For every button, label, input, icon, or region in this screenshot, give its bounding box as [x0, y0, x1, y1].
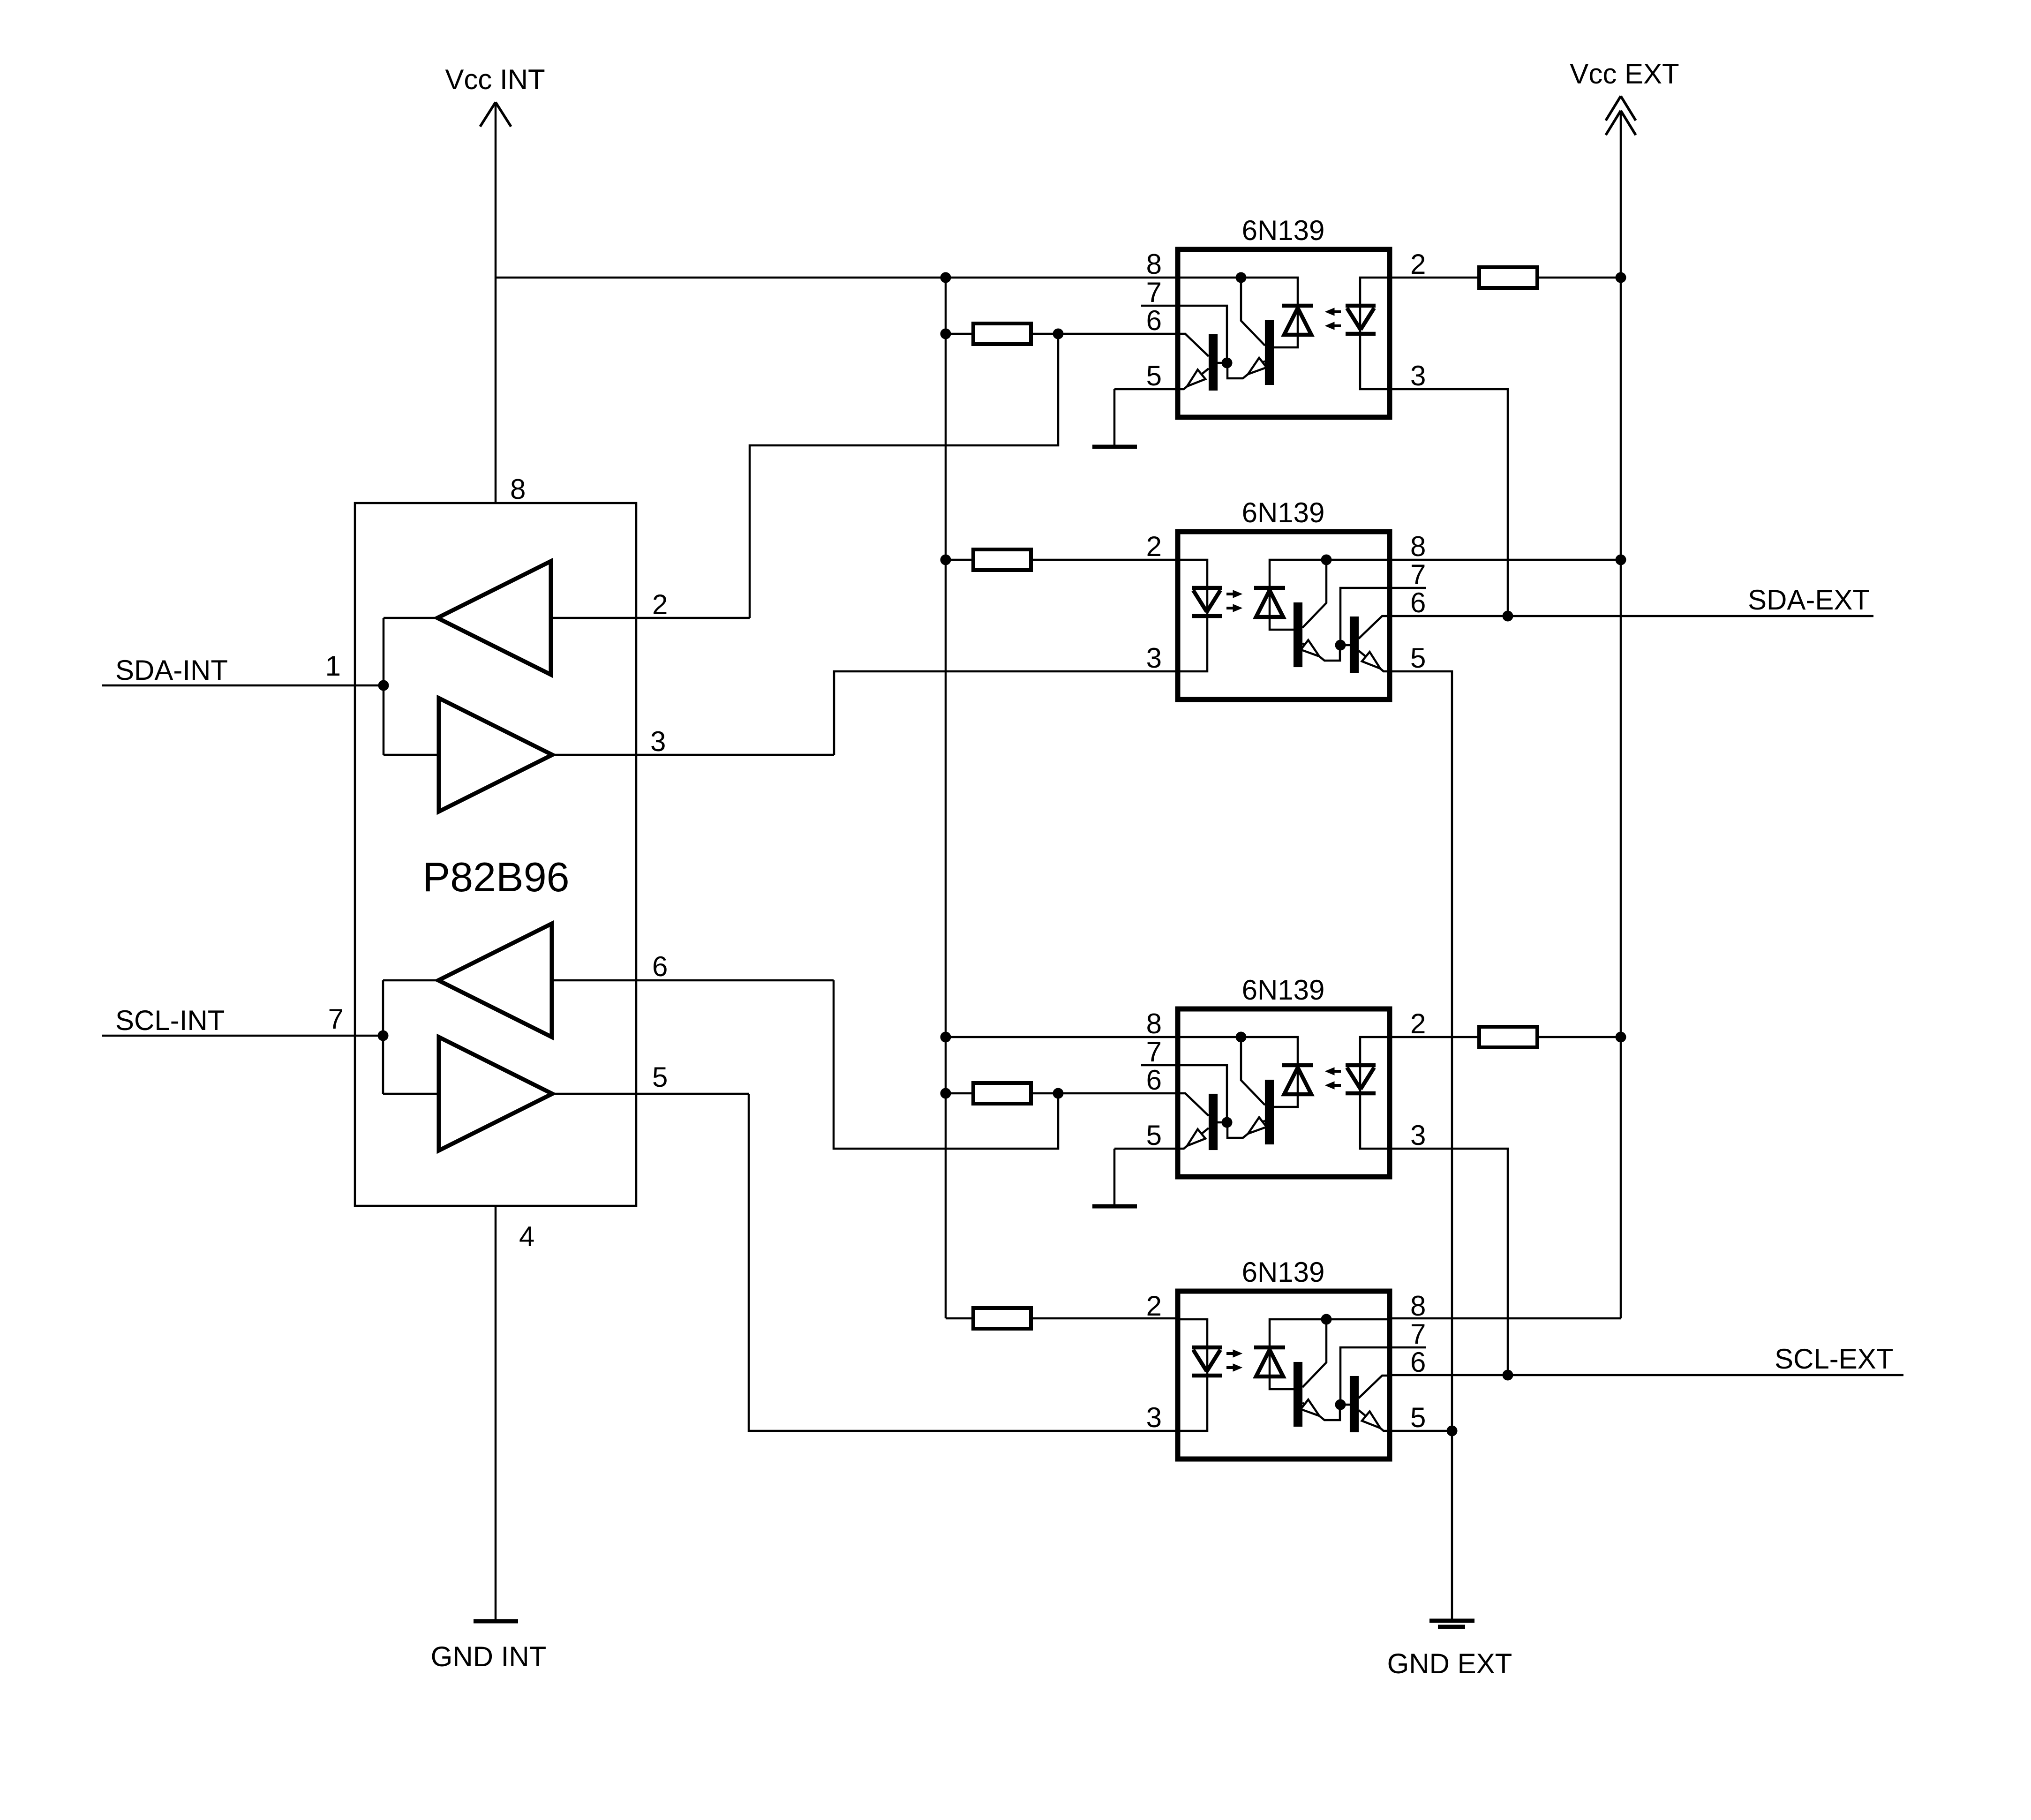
optocoupler U3 6N139: [1141, 1009, 1390, 1177]
resistor R4 (opto4 pin2 series): [946, 1317, 973, 1320]
GND EXT bars: [1429, 1619, 1474, 1623]
svg-text:6: 6: [1146, 1064, 1162, 1096]
buffer A2 (Tx SDA): [439, 698, 552, 812]
pin 2 wire: [551, 617, 750, 619]
pin 3 wire: [552, 754, 834, 756]
resistor R1 (opto1 pin6 pullup): [946, 333, 973, 335]
svg-text:6: 6: [1410, 1346, 1426, 1378]
SDA internal branch: [383, 618, 385, 755]
Vcc INT rail: [495, 102, 497, 503]
svg-text:7: 7: [1146, 277, 1162, 308]
U1 pin5 ground stub: [1114, 388, 1178, 391]
buffer A1 (Rx SDA): [437, 561, 551, 675]
U4 pin3 feed from P82B96 pin5: [749, 1094, 1178, 1431]
svg-text:6N139: 6N139: [1242, 497, 1325, 528]
P82B96 IC box: [355, 503, 636, 1206]
U4 pin8 wire to VccEXT corner: [1390, 1317, 1621, 1320]
feed P82B96 pin2 to U1 pin6 node: [750, 334, 1058, 618]
U3 pin3 wire to SCL-EXT: [1390, 1149, 1508, 1375]
svg-text:6: 6: [1146, 305, 1162, 336]
resistor R6 (opto3 pin2 to VccEXT): [1390, 1036, 1479, 1038]
svg-text:6N139: 6N139: [1242, 974, 1325, 1006]
Vcc INT arrow: [480, 102, 496, 127]
pin 6 wire: [552, 979, 834, 982]
svg-text:5: 5: [1410, 1402, 1426, 1433]
svg-text:GND EXT: GND EXT: [1387, 1648, 1512, 1679]
U1 ground bar: [1092, 445, 1137, 449]
GND EXT rail (from opto2 pin5): [1390, 671, 1452, 1619]
buffer A4 (Tx SCL): [439, 1037, 552, 1151]
U3 pin5 ground stub: [1114, 1148, 1178, 1150]
SDA-INT wire: [102, 684, 384, 687]
svg-text:6: 6: [1410, 587, 1426, 618]
svg-text:5: 5: [652, 1061, 668, 1093]
svg-text:8: 8: [510, 474, 526, 505]
U1 pin3 wire to SDA-EXT: [1390, 389, 1508, 616]
GND INT wire: [495, 1206, 497, 1619]
svg-text:3: 3: [1146, 642, 1162, 674]
svg-text:2: 2: [1146, 531, 1162, 562]
svg-text:3: 3: [1410, 360, 1426, 391]
svg-text:SDA-INT: SDA-INT: [115, 654, 228, 686]
pin 5 wire: [552, 1093, 749, 1095]
svg-text:8: 8: [1146, 1008, 1162, 1039]
svg-text:8: 8: [1410, 531, 1426, 562]
Vcc INT horizontal wire: [496, 277, 1178, 279]
svg-text:6N139: 6N139: [1242, 1256, 1325, 1288]
svg-text:2: 2: [1410, 248, 1426, 280]
Vcc EXT rail: [1620, 111, 1622, 1318]
svg-text:P82B96: P82B96: [422, 854, 569, 900]
buffer A3 (Rx SCL): [438, 924, 552, 1037]
svg-text:5: 5: [1146, 1120, 1162, 1151]
svg-text:Vcc EXT: Vcc EXT: [1570, 58, 1679, 90]
left supply rail x2017: [945, 278, 947, 1318]
feed P82B96 pin6 to U3 pin6 node: [834, 980, 1058, 1149]
GND INT bar: [474, 1619, 518, 1624]
U3 pin8 wire: [946, 1036, 1178, 1038]
svg-text:5: 5: [1146, 360, 1162, 391]
svg-text:7: 7: [1410, 1318, 1426, 1350]
resistor R2 (opto2 pin2 series): [946, 559, 973, 561]
svg-text:SCL-INT: SCL-INT: [115, 1005, 225, 1036]
node dot Vcc rail: [940, 272, 951, 283]
svg-text:7: 7: [1410, 559, 1426, 590]
node SDA-INT dot: [378, 680, 389, 691]
svg-text:1: 1: [325, 650, 341, 682]
svg-text:7: 7: [328, 1003, 344, 1035]
SCL internal branch: [382, 980, 384, 1094]
svg-text:3: 3: [1410, 1120, 1426, 1151]
SCL-INT wire: [102, 1035, 383, 1037]
svg-text:5: 5: [1410, 642, 1426, 674]
resistor R5 (opto1 pin2 to VccEXT): [1390, 277, 1479, 279]
svg-text:4: 4: [519, 1221, 534, 1252]
svg-text:Vcc INT: Vcc INT: [445, 64, 545, 95]
node SCL-INT dot: [378, 1030, 389, 1041]
SCL-EXT line: [1390, 1374, 1903, 1376]
U4 pin5 wire to GND EXT rail: [1390, 1430, 1452, 1432]
resistor R3 (opto3 pin6 pullup): [946, 1092, 973, 1095]
svg-text:SDA-EXT: SDA-EXT: [1748, 584, 1870, 616]
svg-text:3: 3: [1146, 1402, 1162, 1433]
svg-text:GND INT: GND INT: [431, 1641, 547, 1672]
svg-text:8: 8: [1146, 248, 1162, 280]
U2 pin3 feed from P82B96 pin3: [834, 671, 1178, 755]
SDA-EXT line: [1390, 615, 1873, 617]
svg-text:6N139: 6N139: [1242, 215, 1325, 246]
svg-text:3: 3: [650, 726, 666, 757]
svg-text:7: 7: [1146, 1036, 1162, 1068]
svg-text:2: 2: [1146, 1290, 1162, 1322]
svg-text:2: 2: [652, 589, 668, 620]
optocoupler U4 6N139: [1178, 1291, 1426, 1459]
U2 pin8 wire to VccEXT: [1390, 559, 1621, 561]
svg-text:8: 8: [1410, 1290, 1426, 1322]
svg-text:6: 6: [652, 951, 668, 982]
optocoupler U2 6N139: [1178, 532, 1426, 699]
svg-text:2: 2: [1410, 1008, 1426, 1039]
Vcc EXT double arrow: [1606, 96, 1621, 120]
svg-text:SCL-EXT: SCL-EXT: [1775, 1343, 1893, 1375]
optocoupler U1 6N139: [1141, 249, 1390, 417]
U3 ground bar: [1092, 1204, 1137, 1209]
